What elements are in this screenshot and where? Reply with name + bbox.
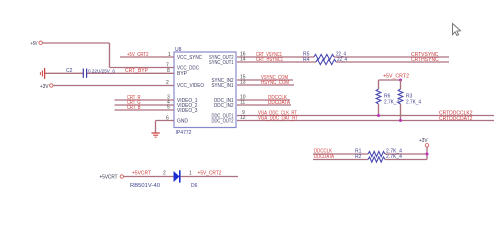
svg-text:2.7K_4: 2.7K_4 (384, 100, 399, 106)
svg-text:SYNC_OUT1: SYNC_OUT1 (209, 60, 234, 66)
svg-text:DDCDATA: DDCDATA (268, 100, 291, 106)
svg-text:+5VCRT: +5VCRT (132, 170, 151, 176)
svg-text:CRT_HSYNC1: CRT_HSYNC1 (256, 57, 283, 63)
svg-text:11: 11 (240, 100, 245, 106)
svg-text:5: 5 (167, 105, 170, 111)
svg-text:1: 1 (168, 52, 171, 58)
svg-text:HSYNC_COM: HSYNC_COM (261, 80, 289, 86)
svg-text:2: 2 (166, 80, 169, 86)
svg-text:VCC_VIDEO: VCC_VIDEO (177, 83, 204, 89)
svg-text:IP4772: IP4772 (176, 130, 192, 136)
svg-text:12: 12 (240, 115, 246, 121)
svg-text:VGA_DDC_DAT_RT: VGA_DDC_DAT_RT (258, 116, 298, 122)
svg-text:VCC_SYNC: VCC_SYNC (177, 55, 202, 61)
svg-text:U8: U8 (175, 47, 182, 53)
svg-text:CRTDDCDAT2: CRTDDCDAT2 (439, 116, 473, 122)
svg-text:DDC_IN2: DDC_IN2 (214, 103, 234, 109)
svg-text:2.7K_4: 2.7K_4 (406, 100, 421, 106)
svg-text:CRT_BYP: CRT_BYP (125, 68, 149, 74)
svg-text:13: 13 (240, 80, 246, 86)
svg-text:GND: GND (177, 119, 188, 125)
svg-text:C2: C2 (66, 68, 73, 74)
svg-text:14: 14 (240, 57, 246, 63)
svg-text:D6: D6 (191, 183, 198, 189)
svg-text:SYNC_IN1: SYNC_IN1 (212, 83, 234, 89)
svg-text:CRTHSYNC: CRTHSYNC (411, 57, 439, 63)
svg-text:6: 6 (166, 116, 169, 122)
svg-text:+5V: +5V (31, 41, 38, 47)
svg-text:CRT_B: CRT_B (127, 105, 141, 111)
svg-text:1: 1 (189, 170, 192, 176)
svg-text:+5V_CRT2: +5V_CRT2 (383, 73, 409, 79)
svg-text:22_4: 22_4 (337, 57, 347, 63)
svg-text:+3V: +3V (419, 138, 428, 144)
svg-text:2.7K_4: 2.7K_4 (386, 154, 402, 160)
svg-text:RB501V-40: RB501V-40 (130, 183, 160, 189)
svg-text:+5V_CRT2: +5V_CRT2 (198, 170, 222, 176)
svg-text:8: 8 (167, 68, 170, 74)
svg-text:2: 2 (163, 170, 166, 176)
svg-text:+5V_CRT2: +5V_CRT2 (127, 52, 149, 58)
svg-text:+5VCRT: +5VCRT (100, 174, 119, 180)
svg-text:DDCDATA: DDCDATA (314, 154, 335, 160)
svg-text:DDC_OUT2: DDC_OUT2 (212, 119, 234, 125)
svg-text:0.22U/25V_6: 0.22U/25V_6 (88, 69, 116, 74)
svg-text:BYP: BYP (177, 71, 188, 77)
svg-text:+3V: +3V (40, 84, 49, 90)
svg-text:R4: R4 (303, 57, 310, 63)
svg-text:R2: R2 (355, 154, 362, 160)
svg-text:VIDEO_3: VIDEO_3 (177, 108, 198, 114)
